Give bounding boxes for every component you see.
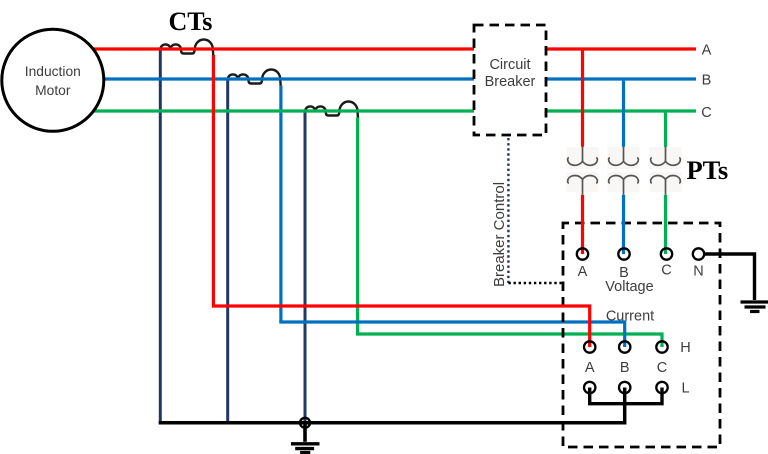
svg-text:C: C xyxy=(657,360,667,376)
current terminal H-B xyxy=(619,341,630,352)
svg-text:Circuit: Circuit xyxy=(489,57,530,73)
phase B wire (blue) breaker to end xyxy=(546,77,696,80)
current terminal L-A xyxy=(584,382,595,393)
PT secondary stub phase C (green) xyxy=(664,195,667,254)
CT coil phase A xyxy=(161,40,214,57)
CT secondary wire phase C (green) to current terminal xyxy=(358,118,662,348)
svg-text:Motor: Motor xyxy=(35,83,71,98)
svg-text:Induction: Induction xyxy=(25,64,81,79)
PT transformer phase A xyxy=(567,146,599,195)
svg-text:Voltage: Voltage xyxy=(605,279,653,295)
voltage terminal C xyxy=(661,248,672,259)
PT transformer phase C xyxy=(650,146,682,195)
svg-text:C: C xyxy=(661,263,671,279)
circuit breaker CB xyxy=(474,25,546,135)
svg-text:N: N xyxy=(693,264,703,280)
phase A wire (red) motor to breaker xyxy=(60,47,474,50)
svg-text:CTs: CTs xyxy=(169,7,213,36)
svg-text:H: H xyxy=(680,340,690,356)
PT primary drop phase A (red) xyxy=(581,49,584,147)
current terminal H-C xyxy=(656,341,667,352)
voltage terminal A xyxy=(577,248,588,259)
ground symbol right xyxy=(741,302,768,312)
PT transformer phase B xyxy=(608,146,640,195)
svg-text:Breaker: Breaker xyxy=(485,74,536,90)
current terminal L-C xyxy=(656,382,667,393)
svg-text:A: A xyxy=(585,360,595,376)
induction motor M xyxy=(2,29,104,131)
L return wire to ground bus xyxy=(159,388,625,423)
PT secondary stub phase A (red) xyxy=(581,195,584,254)
CT secondary return wire phase A (navy) xyxy=(159,49,162,423)
PT primary drop phase B (blue) xyxy=(622,79,625,147)
svg-text:Breaker Control: Breaker Control xyxy=(491,182,508,287)
breaker control dotted wire horizontal (black) xyxy=(508,282,563,284)
CT coil phase C xyxy=(305,102,358,119)
meter dashed box xyxy=(563,223,720,447)
current terminal L-B xyxy=(619,382,630,393)
ground symbol bottom xyxy=(291,444,320,453)
ground stub bottom xyxy=(303,423,307,442)
phase A wire (red) breaker to end xyxy=(546,47,696,50)
svg-text:PTs: PTs xyxy=(687,155,729,185)
CT secondary wire phase B vertical (blue) xyxy=(279,86,282,323)
svg-text:A: A xyxy=(578,264,588,280)
CT secondary wire phase A (red) to current terminal xyxy=(213,55,589,347)
junction node xyxy=(300,418,310,428)
current terminal H-A xyxy=(584,341,595,352)
voltage terminal N xyxy=(693,248,704,259)
CT secondary return wire phase B (navy) xyxy=(226,79,229,423)
phase B wire (blue) motor to breaker xyxy=(60,77,474,80)
svg-text:B: B xyxy=(702,73,712,89)
CT secondary return wire phase C (navy) xyxy=(304,111,307,423)
phase C wire (green) breaker to end xyxy=(546,109,696,112)
svg-text:Current: Current xyxy=(606,309,654,325)
CT secondary wire phase B horizontal (blue) to current terminal xyxy=(279,322,624,347)
breaker control dotted wire vertical (navy) xyxy=(507,138,509,283)
svg-text:C: C xyxy=(701,105,711,121)
PT primary drop phase C (green) xyxy=(664,111,667,147)
svg-text:A: A xyxy=(702,43,712,59)
phase C wire (green) motor to breaker xyxy=(60,109,474,112)
svg-text:L: L xyxy=(681,381,689,397)
PT secondary stub phase B (blue) xyxy=(622,195,625,254)
L tie wire A to C xyxy=(590,388,662,404)
neutral wire to ground xyxy=(704,254,755,300)
CT coil phase B xyxy=(228,70,281,87)
svg-text:B: B xyxy=(620,360,630,376)
voltage terminal B xyxy=(618,248,629,259)
